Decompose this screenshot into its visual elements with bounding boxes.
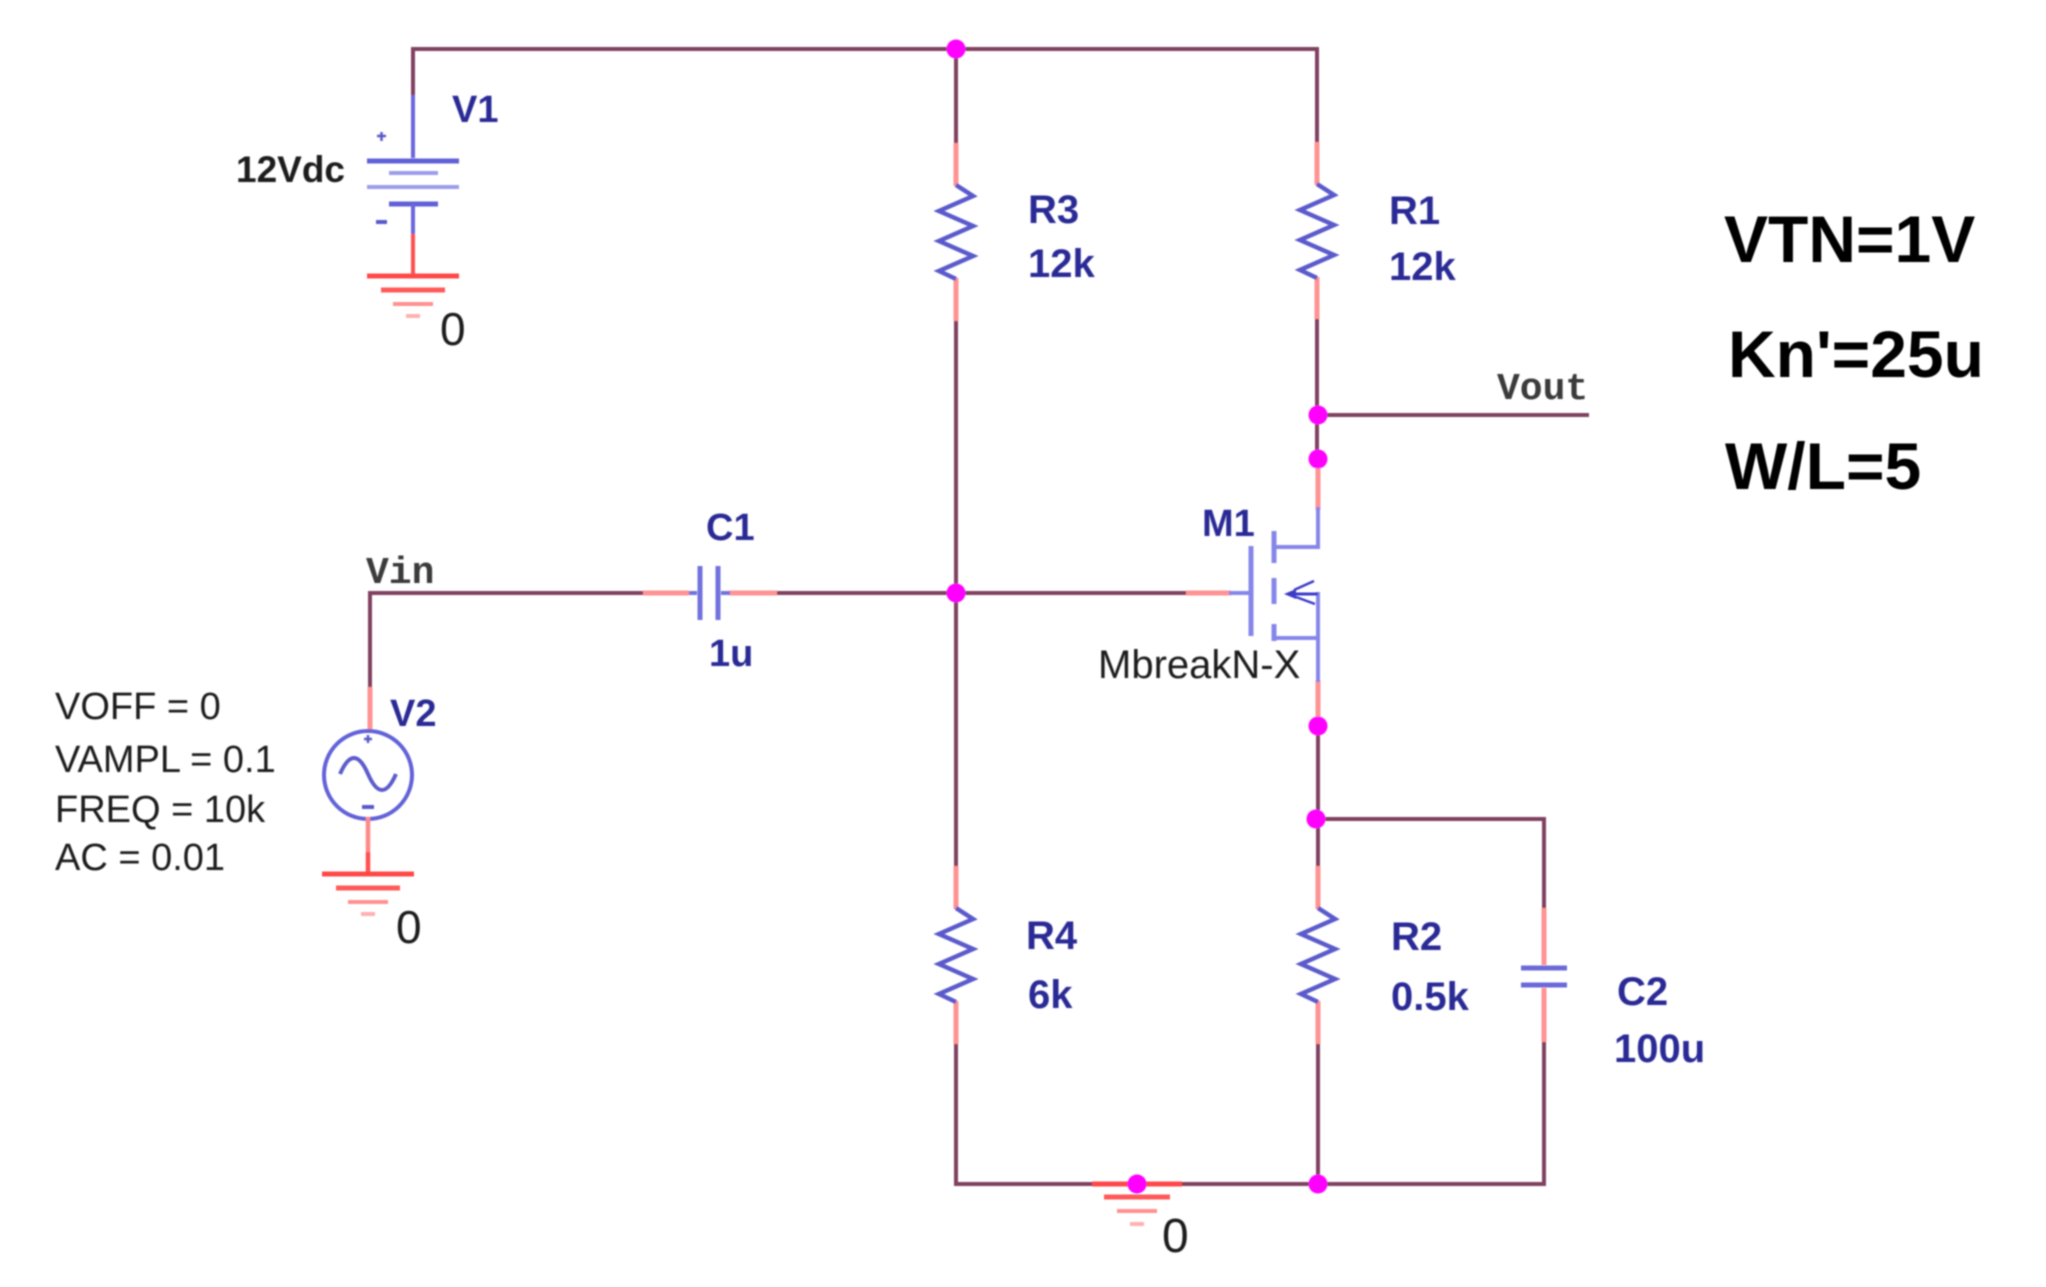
svg-text:Kn'=25u: Kn'=25u [1728,317,1984,391]
wire V2 to ground (red lead) [366,817,371,874]
annotation W/L=5 [1725,429,1921,503]
pin M1 source [1316,680,1321,722]
annotation Kn'=25u [1728,317,1984,391]
wire top rail V1 to R1 column [411,47,1319,51]
wire C1 to gate node [775,591,958,595]
node dot bottom ground node [1128,1175,1147,1194]
pin R4 top [954,866,959,909]
pin C1 left [643,591,689,596]
pin R3 top [954,143,959,186]
svg-text:C1: C1 [706,507,755,549]
wire R3 column top [954,49,958,143]
wire V1 top lead vertical [411,47,415,97]
pin R2 bottom [1316,1001,1321,1044]
ground 0 below V2 [322,874,414,914]
resistor R1 [1300,184,1334,278]
svg-text:AC = 0.01: AC = 0.01 [55,837,225,879]
svg-text:R2: R2 [1391,915,1442,959]
wire Vin horizontal to C1 [368,591,645,595]
label V1 [452,89,498,131]
svg-text:W/L=5: W/L=5 [1725,429,1921,503]
svg-text:V1: V1 [452,89,498,131]
svg-text:R4: R4 [1026,914,1078,958]
wire V1 to ground (red lead) [411,234,415,276]
label 0 below V2 ground [396,901,422,953]
node dot R2 top node [1307,810,1326,829]
node dot gate junction [947,584,966,603]
value 12k of R1 [1389,245,1456,289]
pin C2 bottom [1542,988,1547,1042]
resistor R3 [939,185,973,279]
pin R4 bottom [954,1001,959,1044]
wire C2 vertical top [1542,817,1546,910]
value 0.5k of R2 [1391,975,1470,1019]
svg-text:Vin: Vin [366,552,434,595]
node dot below Vout [1309,450,1328,469]
svg-text:6k: 6k [1028,973,1073,1017]
svg-text:1u: 1u [709,633,753,675]
svg-text:VAMPL = 0.1: VAMPL = 0.1 [55,739,276,781]
V2 parameter AC [55,837,225,879]
svg-text:V2: V2 [390,693,436,735]
wire C2 vertical bottom [1542,1040,1546,1186]
value 100u of C2 [1614,1027,1705,1071]
net label Vout [1497,368,1588,411]
svg-text:VOFF = 0: VOFF = 0 [55,686,221,728]
net label Vin [366,552,434,595]
pin C1 right [729,591,777,596]
svg-text:FREQ = 10k: FREQ = 10k [55,789,266,831]
transistor M1 [1229,507,1318,682]
wire gate node to M1 gate [956,591,1188,595]
battery V1 [367,95,459,236]
wire bottom rail [956,1182,1546,1186]
svg-text:R3: R3 [1028,188,1079,232]
value 12Vdc [236,149,345,190]
capacitor C1 [689,566,730,620]
svg-text:Vout: Vout [1497,368,1588,411]
wire R2 node to C2 top [1316,817,1546,821]
pin R1 top [1315,142,1320,185]
V2 parameter VAMPL [55,739,276,781]
label M1 [1202,503,1255,545]
pin C2 top [1542,908,1547,965]
svg-text:0: 0 [440,303,466,355]
wire R2 bottom to rail [1316,1044,1320,1184]
pin M1 drain [1316,464,1321,510]
label R1 [1389,189,1440,233]
svg-text:M1: M1 [1202,503,1255,545]
node dot source node [1309,717,1328,736]
pin M1 gate [1186,591,1231,596]
node dot top rail junction [947,40,966,59]
ground 0 below V1 [367,276,459,316]
resistor R2 [1301,908,1335,1002]
pin R2 top [1316,866,1321,909]
svg-text:MbreakN-X: MbreakN-X [1098,643,1300,687]
label R4 [1026,914,1078,958]
ground 0 bottom center [1104,1197,1170,1224]
V2 parameter FREQ [55,789,266,831]
svg-text:100u: 100u [1614,1027,1705,1071]
pin R3 bottom [954,278,959,321]
pin R1 bottom [1315,277,1320,319]
label C2 [1617,970,1668,1014]
value 1u of C1 [709,633,753,675]
svg-text:0: 0 [1162,1210,1189,1263]
wire R4 bottom to rail [954,1044,958,1186]
node dot Vout [1309,406,1328,425]
svg-text:12k: 12k [1028,242,1095,286]
annotation VTN=1V [1724,202,1975,276]
svg-text:VTN=1V: VTN=1V [1724,202,1975,276]
value 12k of R3 [1028,242,1095,286]
label R3 [1028,188,1079,232]
ground red segment on bottom rail [1092,1182,1182,1187]
value MbreakN-X of M1 [1098,643,1300,687]
wire Vin vertical down to V2 [368,591,372,689]
wire R3 bottom through gate node to R4 top [954,321,958,866]
label 0 below bottom ground [1162,1210,1189,1263]
svg-text:0.5k: 0.5k [1391,975,1470,1019]
svg-text:R1: R1 [1389,189,1440,233]
value 6k of R4 [1028,973,1073,1017]
label R2 [1391,915,1442,959]
wire Vout stub to the right [1318,413,1589,417]
resistor R4 [939,908,973,1002]
node dot R2 bottom node [1309,1175,1328,1194]
svg-text:C2: C2 [1617,970,1668,1014]
wire M1 source to R2 top node [1316,724,1320,868]
svg-text:0: 0 [396,901,422,953]
label 0 below V1 ground [440,303,466,355]
wire R1 bottom to Vout node [1315,319,1319,466]
capacitor C2 [1521,968,1567,985]
sine source V2 [324,731,412,819]
V2 parameter VOFF [55,686,221,728]
label V2 [390,693,436,735]
pin V2 top [368,687,373,733]
svg-text:12Vdc: 12Vdc [236,149,345,190]
svg-text:12k: 12k [1389,245,1456,289]
wire R1 column top [1315,49,1319,142]
label C1 [706,507,755,549]
